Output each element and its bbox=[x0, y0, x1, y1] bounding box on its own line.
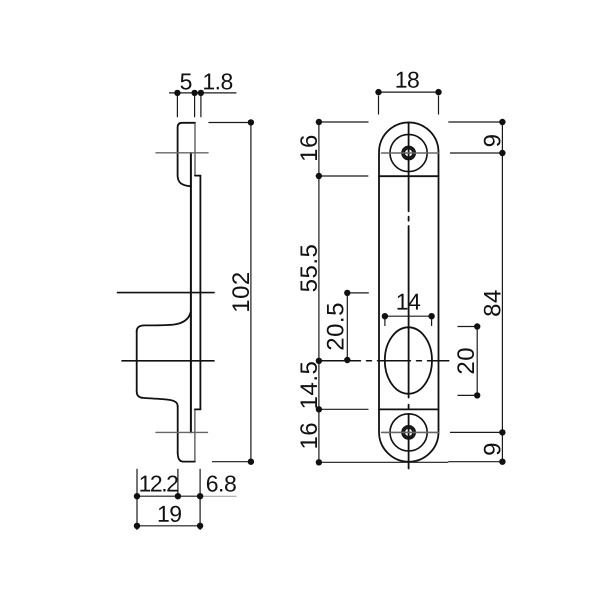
dim 20.5 top tick bbox=[347, 292, 369, 294]
dots bottom dims bbox=[134, 493, 140, 499]
left view: pocket bump bottom edge bbox=[137, 392, 178, 407]
left view: top flange outline bbox=[178, 123, 195, 187]
left view: step at top bend bbox=[195, 175, 200, 177]
dots dim 20 bbox=[474, 323, 480, 329]
left view: step at bottom bend bbox=[195, 408, 201, 410]
right chain tick y153 bbox=[450, 152, 502, 154]
svg-text:20: 20 bbox=[453, 347, 480, 375]
dim 102 connectors bbox=[208, 122, 251, 124]
dots dim 102 bbox=[248, 119, 254, 125]
left view: bottom flange bottom edge bbox=[178, 452, 195, 461]
dots dim 18 bbox=[375, 89, 381, 95]
right view: oval slot bbox=[385, 327, 432, 393]
dim 18 ext lines bbox=[378, 96, 380, 115]
right view: top screw hole outer bbox=[402, 147, 415, 160]
svg-text:84: 84 bbox=[480, 289, 507, 317]
right view: vertical centerline bbox=[408, 123, 410, 469]
left view: centerline at bottom screw level bbox=[156, 431, 208, 433]
svg-text:102: 102 bbox=[228, 271, 255, 313]
left view: main front face bbox=[190, 153, 192, 432]
svg-text:18: 18 bbox=[395, 67, 420, 93]
right view: top screw horizontal centerline bbox=[382, 152, 439, 154]
right chain tick y122 bbox=[448, 121, 502, 123]
right chain tick y462 bbox=[448, 461, 502, 463]
left view: bottom flange left edge bbox=[177, 406, 179, 452]
left chain tick y462 bbox=[319, 461, 448, 463]
left chain tick y122 bbox=[319, 121, 369, 123]
dim 5/1.8 ext lines bbox=[176, 96, 178, 117]
dots right chain bbox=[499, 119, 505, 125]
right view: bottom screw hole inner bbox=[404, 428, 413, 437]
svg-text:14.5: 14.5 bbox=[296, 361, 323, 410]
dim 20 ticks bbox=[458, 326, 478, 328]
bottom dim line 12.2/6.8 bbox=[137, 495, 200, 497]
left view: bottom front face thin line bbox=[194, 409, 196, 461]
svg-text:16: 16 bbox=[296, 134, 323, 162]
dim 20.5 vertical bbox=[346, 293, 348, 360]
bottom dim line 19 bbox=[137, 525, 200, 527]
dim 20 vertical bbox=[476, 327, 478, 396]
right view: oval horizontal centerline bbox=[319, 360, 449, 362]
svg-text:12.2: 12.2 bbox=[139, 470, 178, 496]
svg-text:5: 5 bbox=[180, 68, 192, 94]
left chain tick y176 bbox=[319, 175, 368, 177]
svg-text:55.5: 55.5 bbox=[296, 244, 323, 293]
svg-text:20.5: 20.5 bbox=[323, 302, 350, 351]
left view: pocket bump top edge bbox=[137, 312, 191, 332]
svg-text:1.8: 1.8 bbox=[202, 68, 232, 94]
dots left chain bbox=[316, 119, 322, 125]
right view: top screw countersink circle bbox=[390, 134, 427, 171]
bottom dim line extension gray bbox=[200, 495, 236, 497]
svg-text:19: 19 bbox=[157, 501, 182, 527]
svg-text:9: 9 bbox=[480, 134, 507, 148]
left view: main back face bbox=[199, 176, 201, 410]
left view: pocket bump left edge bbox=[136, 331, 138, 392]
dim 5/1.8 line bbox=[169, 92, 236, 94]
svg-text:16: 16 bbox=[296, 422, 323, 450]
dimension dots bbox=[134, 89, 506, 529]
right chain vertical bbox=[501, 122, 503, 462]
dim 102 vertical line bbox=[250, 122, 252, 461]
left view: top front face thin line bbox=[194, 123, 196, 176]
svg-text:14: 14 bbox=[396, 289, 421, 315]
right view: top screw hole inner bbox=[404, 149, 413, 158]
dots dim 14 bbox=[382, 313, 388, 319]
left view: line at 20.5 level bbox=[118, 292, 215, 294]
right view: bottom screw hole outer bbox=[402, 426, 415, 439]
right view: top bend line bbox=[379, 175, 439, 177]
dots dim 5/1.8 bbox=[174, 90, 180, 96]
dim 18 line bbox=[379, 91, 439, 93]
dimension labels bbox=[139, 67, 507, 527]
left view: centerline at top screw level bbox=[156, 152, 208, 154]
right view: bottom bend line bbox=[379, 408, 439, 410]
svg-text:9: 9 bbox=[480, 442, 507, 456]
right view: bottom screw countersink circle bbox=[390, 414, 427, 451]
left chain tick y409 bbox=[319, 408, 369, 410]
left view: centerline at oval level bbox=[122, 360, 214, 362]
dimension graphics bbox=[137, 92, 502, 530]
right chain tick y432 bbox=[450, 431, 502, 433]
bottom ext lines bbox=[136, 469, 138, 530]
dots dim 20.5 bbox=[344, 290, 350, 296]
svg-text:6.8: 6.8 bbox=[206, 470, 236, 496]
right view: bottom screw horizontal centerline bbox=[382, 431, 439, 433]
left chain vertical bbox=[318, 122, 320, 462]
right view: plate outline stadium bbox=[379, 122, 439, 461]
dim 14 line bbox=[385, 315, 432, 317]
dim 14 ext lines bbox=[384, 319, 386, 327]
